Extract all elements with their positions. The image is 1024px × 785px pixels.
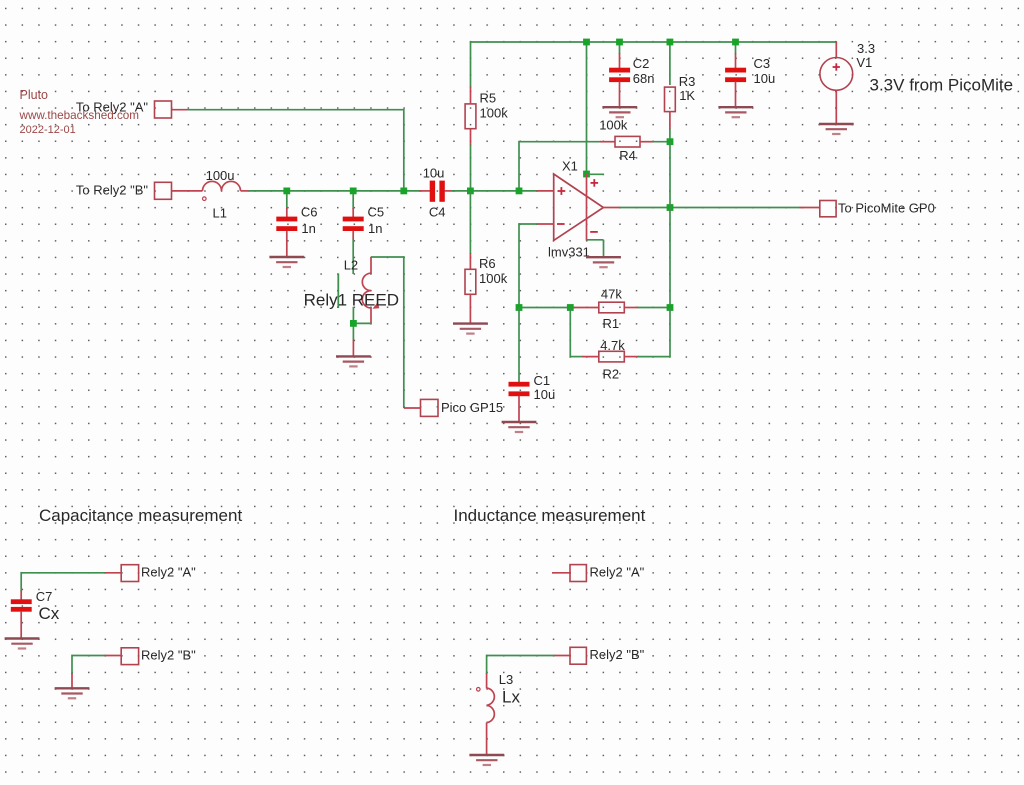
svg-text:47k: 47k xyxy=(601,287,622,302)
wire R2 right xyxy=(638,356,670,358)
svg-text:1n: 1n xyxy=(301,221,315,236)
pin terminal B / L1 left xyxy=(172,190,203,192)
junction C6 xyxy=(283,188,290,195)
terminal To Rely2 "B" xyxy=(155,182,172,199)
wire C5 to relay switch xyxy=(352,239,354,274)
pin C4 right xyxy=(445,190,453,192)
pin terminal A xyxy=(172,109,189,111)
pin L1 right xyxy=(241,190,250,192)
L1 polarity dot xyxy=(203,197,207,201)
pin C2 top xyxy=(619,53,621,69)
ground C1 xyxy=(502,422,537,432)
wire R4 to plus-input node xyxy=(518,141,520,191)
terminal To Rely2 "A" xyxy=(155,101,172,118)
wire coil to junction xyxy=(356,322,372,324)
resistor R4 xyxy=(615,136,640,147)
voltage source V1 xyxy=(820,58,853,91)
svg-text:R2: R2 xyxy=(603,367,620,382)
junction output xyxy=(667,204,674,211)
wire C7 top vertical xyxy=(20,572,22,592)
svg-text:2022-12-01: 2022-12-01 xyxy=(20,124,76,136)
wire 3.3V rail xyxy=(471,41,837,43)
inductor L1 xyxy=(203,181,241,191)
junction R5/R6 tap xyxy=(467,188,474,195)
svg-text:To PicoMite GP0: To PicoMite GP0 xyxy=(838,201,935,216)
svg-text:L3: L3 xyxy=(499,672,513,687)
wire node to C1 xyxy=(518,308,520,383)
pin terminal GP15 xyxy=(404,407,421,409)
capacitor C6 xyxy=(276,217,297,231)
junction C5 xyxy=(350,188,357,195)
pin ind terminal B xyxy=(554,655,572,657)
svg-text:10u: 10u xyxy=(423,166,445,181)
wire to Pico GP15 xyxy=(403,256,405,408)
svg-text:L2: L2 xyxy=(344,258,358,273)
junction relay xyxy=(350,320,357,327)
terminal To PicoMite GP0 xyxy=(820,201,836,217)
wire main row right xyxy=(452,190,537,192)
pin op-amp output xyxy=(603,207,620,209)
svg-text:R3: R3 xyxy=(679,74,696,89)
junction plus-input node xyxy=(516,188,523,195)
svg-text:C4: C4 xyxy=(429,204,446,219)
op-amp V- mark xyxy=(590,231,598,233)
svg-text:3.3: 3.3 xyxy=(857,41,875,56)
svg-text:Pluto: Pluto xyxy=(20,88,49,102)
svg-text:Cx: Cx xyxy=(39,604,60,623)
pin op-amp plus input xyxy=(537,190,555,192)
svg-text:C5: C5 xyxy=(368,204,385,219)
svg-text:C2: C2 xyxy=(633,56,650,71)
junction rail/V+ line xyxy=(583,39,590,46)
wire V- down xyxy=(603,240,605,258)
junction R1/R2 right xyxy=(667,304,674,311)
ground R6 xyxy=(453,324,488,334)
wire R4 left xyxy=(519,141,601,143)
svg-text:3.3V from PicoMite: 3.3V from PicoMite xyxy=(870,75,1014,94)
capacitor C3 xyxy=(725,68,746,82)
pin R2 left xyxy=(582,356,599,358)
terminal Rely2 "B" (ind) xyxy=(570,647,586,664)
pin C1 bottom xyxy=(518,396,520,422)
ground C3 xyxy=(718,107,753,117)
pin op-amp power xyxy=(586,174,588,241)
wire node to R6 xyxy=(469,191,471,254)
svg-text:4.7k: 4.7k xyxy=(600,338,625,353)
junction A branch xyxy=(400,188,407,195)
wire R2 left xyxy=(570,356,583,358)
pin L3 bottom xyxy=(486,723,488,756)
junction minus node xyxy=(516,304,523,311)
pin C3 bottom xyxy=(735,82,737,108)
pin C6 bottom xyxy=(286,231,288,258)
pin C7 bottom xyxy=(20,611,22,639)
resistor R1 xyxy=(599,302,625,313)
wire C5 stub xyxy=(352,194,354,209)
terminal Rely2 "A" (ind) xyxy=(570,565,586,582)
pin R4 left xyxy=(600,141,616,143)
svg-text:100k: 100k xyxy=(599,118,628,133)
svg-text:lmv331: lmv331 xyxy=(548,245,590,260)
junction op-amp V+ pin xyxy=(583,171,590,178)
pin C2 bottom xyxy=(619,82,621,108)
svg-text:To Rely2 "A": To Rely2 "A" xyxy=(76,99,148,114)
svg-text:R1: R1 xyxy=(603,316,620,331)
svg-text:To Rely2 "B": To Rely2 "B" xyxy=(76,182,148,197)
svg-text:Pico GP15: Pico GP15 xyxy=(441,400,503,415)
ground cap B xyxy=(55,688,90,698)
pin relay bottom xyxy=(352,340,354,357)
wire cap B vertical xyxy=(71,655,73,674)
svg-text:100u: 100u xyxy=(206,168,235,183)
ground C2 xyxy=(602,107,637,117)
svg-text:R4: R4 xyxy=(619,148,636,163)
wire C7 top horizontal xyxy=(21,572,105,574)
svg-text:100k: 100k xyxy=(479,271,508,286)
svg-text:C3: C3 xyxy=(754,56,771,71)
svg-text:10u: 10u xyxy=(534,387,556,402)
ground C7 xyxy=(5,639,40,649)
pin terminal GP0 xyxy=(800,207,821,209)
ground relay xyxy=(336,356,371,366)
junction R2 branch xyxy=(567,304,574,311)
svg-text:Inductance measurement: Inductance measurement xyxy=(454,506,646,525)
wire R3 top xyxy=(669,45,671,85)
wire R1 right xyxy=(638,307,670,309)
pin C5 bottom xyxy=(352,231,354,240)
svg-text:1n: 1n xyxy=(368,221,382,236)
pin R4 right xyxy=(640,141,654,143)
terminal Pico GP15 xyxy=(421,399,439,416)
pin R5 top xyxy=(470,87,472,105)
svg-text:Rely2 "A": Rely2 "A" xyxy=(141,565,196,580)
relay coil L2 xyxy=(362,257,371,323)
capacitor C4 xyxy=(430,181,445,202)
svg-text:Lx: Lx xyxy=(502,688,520,707)
resistor R6 xyxy=(465,269,476,294)
L3 polarity dot xyxy=(477,688,481,692)
wire R5 to node xyxy=(470,145,472,188)
wire R4 right xyxy=(653,141,671,143)
wire main row left xyxy=(249,190,420,192)
pin R5 bottom xyxy=(470,128,472,145)
pin C4 left xyxy=(419,190,430,192)
wire A vertical xyxy=(403,109,405,191)
pin C7 top xyxy=(20,591,22,601)
svg-text:Rely1 REED: Rely1 REED xyxy=(304,290,399,309)
wire cap B horizontal xyxy=(72,655,105,657)
svg-text:C1: C1 xyxy=(534,373,551,388)
svg-text:1K: 1K xyxy=(679,88,695,103)
ground op-amp V- xyxy=(586,257,621,267)
junction rail/C3 xyxy=(732,39,739,46)
pin R6 top xyxy=(469,253,471,270)
relay switch lever xyxy=(337,274,339,309)
inductor L3 xyxy=(487,688,495,723)
wire R1 left xyxy=(519,307,575,309)
pin C5 top xyxy=(352,208,354,217)
svg-text:68n: 68n xyxy=(633,71,655,86)
wire A horizontal xyxy=(187,109,404,111)
pin R1 right xyxy=(624,307,639,309)
wire relay coil top xyxy=(371,256,404,258)
pin C3 top xyxy=(735,53,737,69)
wire C6 stub xyxy=(286,194,288,209)
wire R2 left vertical xyxy=(569,307,571,357)
wire relay switch bottom xyxy=(352,307,354,341)
wire V+ stub xyxy=(587,173,604,175)
pin cap terminal B xyxy=(104,655,122,657)
wire L3 horizontal xyxy=(487,655,555,657)
svg-text:Capacitance measurement: Capacitance measurement xyxy=(39,506,242,525)
wire minus node vertical xyxy=(518,223,520,307)
svg-text:C7: C7 xyxy=(36,589,53,604)
ground L3 xyxy=(469,755,504,765)
pin L3 top xyxy=(486,673,488,689)
wire minus input xyxy=(519,223,538,225)
junction rail/C2 xyxy=(616,39,623,46)
terminal Rely2 "A" (cap) xyxy=(121,565,138,582)
pin R2 right xyxy=(624,356,639,358)
capacitor C7 xyxy=(11,599,32,611)
svg-text:R6: R6 xyxy=(479,256,496,271)
resistor R5 xyxy=(465,104,476,129)
pin V1 bottom xyxy=(835,90,837,124)
svg-text:10u: 10u xyxy=(754,71,776,86)
pin C6 top xyxy=(286,208,288,217)
wire R3 to R4 node xyxy=(669,129,671,142)
capacitor C5 xyxy=(343,217,364,231)
terminal Rely2 "B" (cap) xyxy=(121,648,138,665)
svg-text:Rely2 "B": Rely2 "B" xyxy=(141,648,196,663)
relay coil arrow xyxy=(373,302,380,309)
capacitor C2 xyxy=(609,68,630,82)
svg-text:Rely2 "A": Rely2 "A" xyxy=(590,565,645,580)
wire C3 stub xyxy=(735,45,737,54)
svg-text:100k: 100k xyxy=(480,106,509,121)
wire R2 right vertical xyxy=(669,308,671,358)
ground V1 xyxy=(819,124,854,134)
wire V- step xyxy=(587,239,604,241)
pin R1 left xyxy=(574,307,599,309)
wire C2 stub xyxy=(619,45,621,54)
wire L3 vertical xyxy=(486,655,488,674)
svg-text:R5: R5 xyxy=(480,91,497,106)
wire rail to op-amp V+ xyxy=(586,42,588,174)
op-amp minus input mark xyxy=(557,223,565,225)
svg-text:X1: X1 xyxy=(562,159,578,174)
pin ind terminal A xyxy=(552,572,571,574)
pin cap B ground xyxy=(71,673,73,689)
ground C6 xyxy=(269,257,304,267)
pin op-amp minus input xyxy=(537,223,555,225)
wire output xyxy=(619,207,801,209)
junction R4/R3/output net xyxy=(667,138,674,145)
svg-text:L1: L1 xyxy=(213,206,227,221)
wire rail to R5 xyxy=(470,41,472,87)
resistor R3 xyxy=(665,87,676,112)
svg-text:Rely2 "B": Rely2 "B" xyxy=(590,647,645,662)
resistor R2 xyxy=(599,351,625,362)
pin R6 bottom xyxy=(469,294,471,324)
pin cap terminal A xyxy=(104,572,122,574)
svg-text:V1: V1 xyxy=(856,55,872,70)
op-amp X1 body xyxy=(554,174,604,240)
V1 plus mark xyxy=(833,63,840,70)
wire output net vertical xyxy=(669,142,671,308)
svg-text:C6: C6 xyxy=(301,204,318,219)
pin R3 bottom xyxy=(669,111,671,130)
capacitor C1 xyxy=(509,382,530,396)
op-amp V+ mark xyxy=(591,179,599,187)
pin V1 top xyxy=(835,41,837,58)
junction rail/R3 xyxy=(667,39,674,46)
op-amp plus input mark xyxy=(558,187,566,195)
